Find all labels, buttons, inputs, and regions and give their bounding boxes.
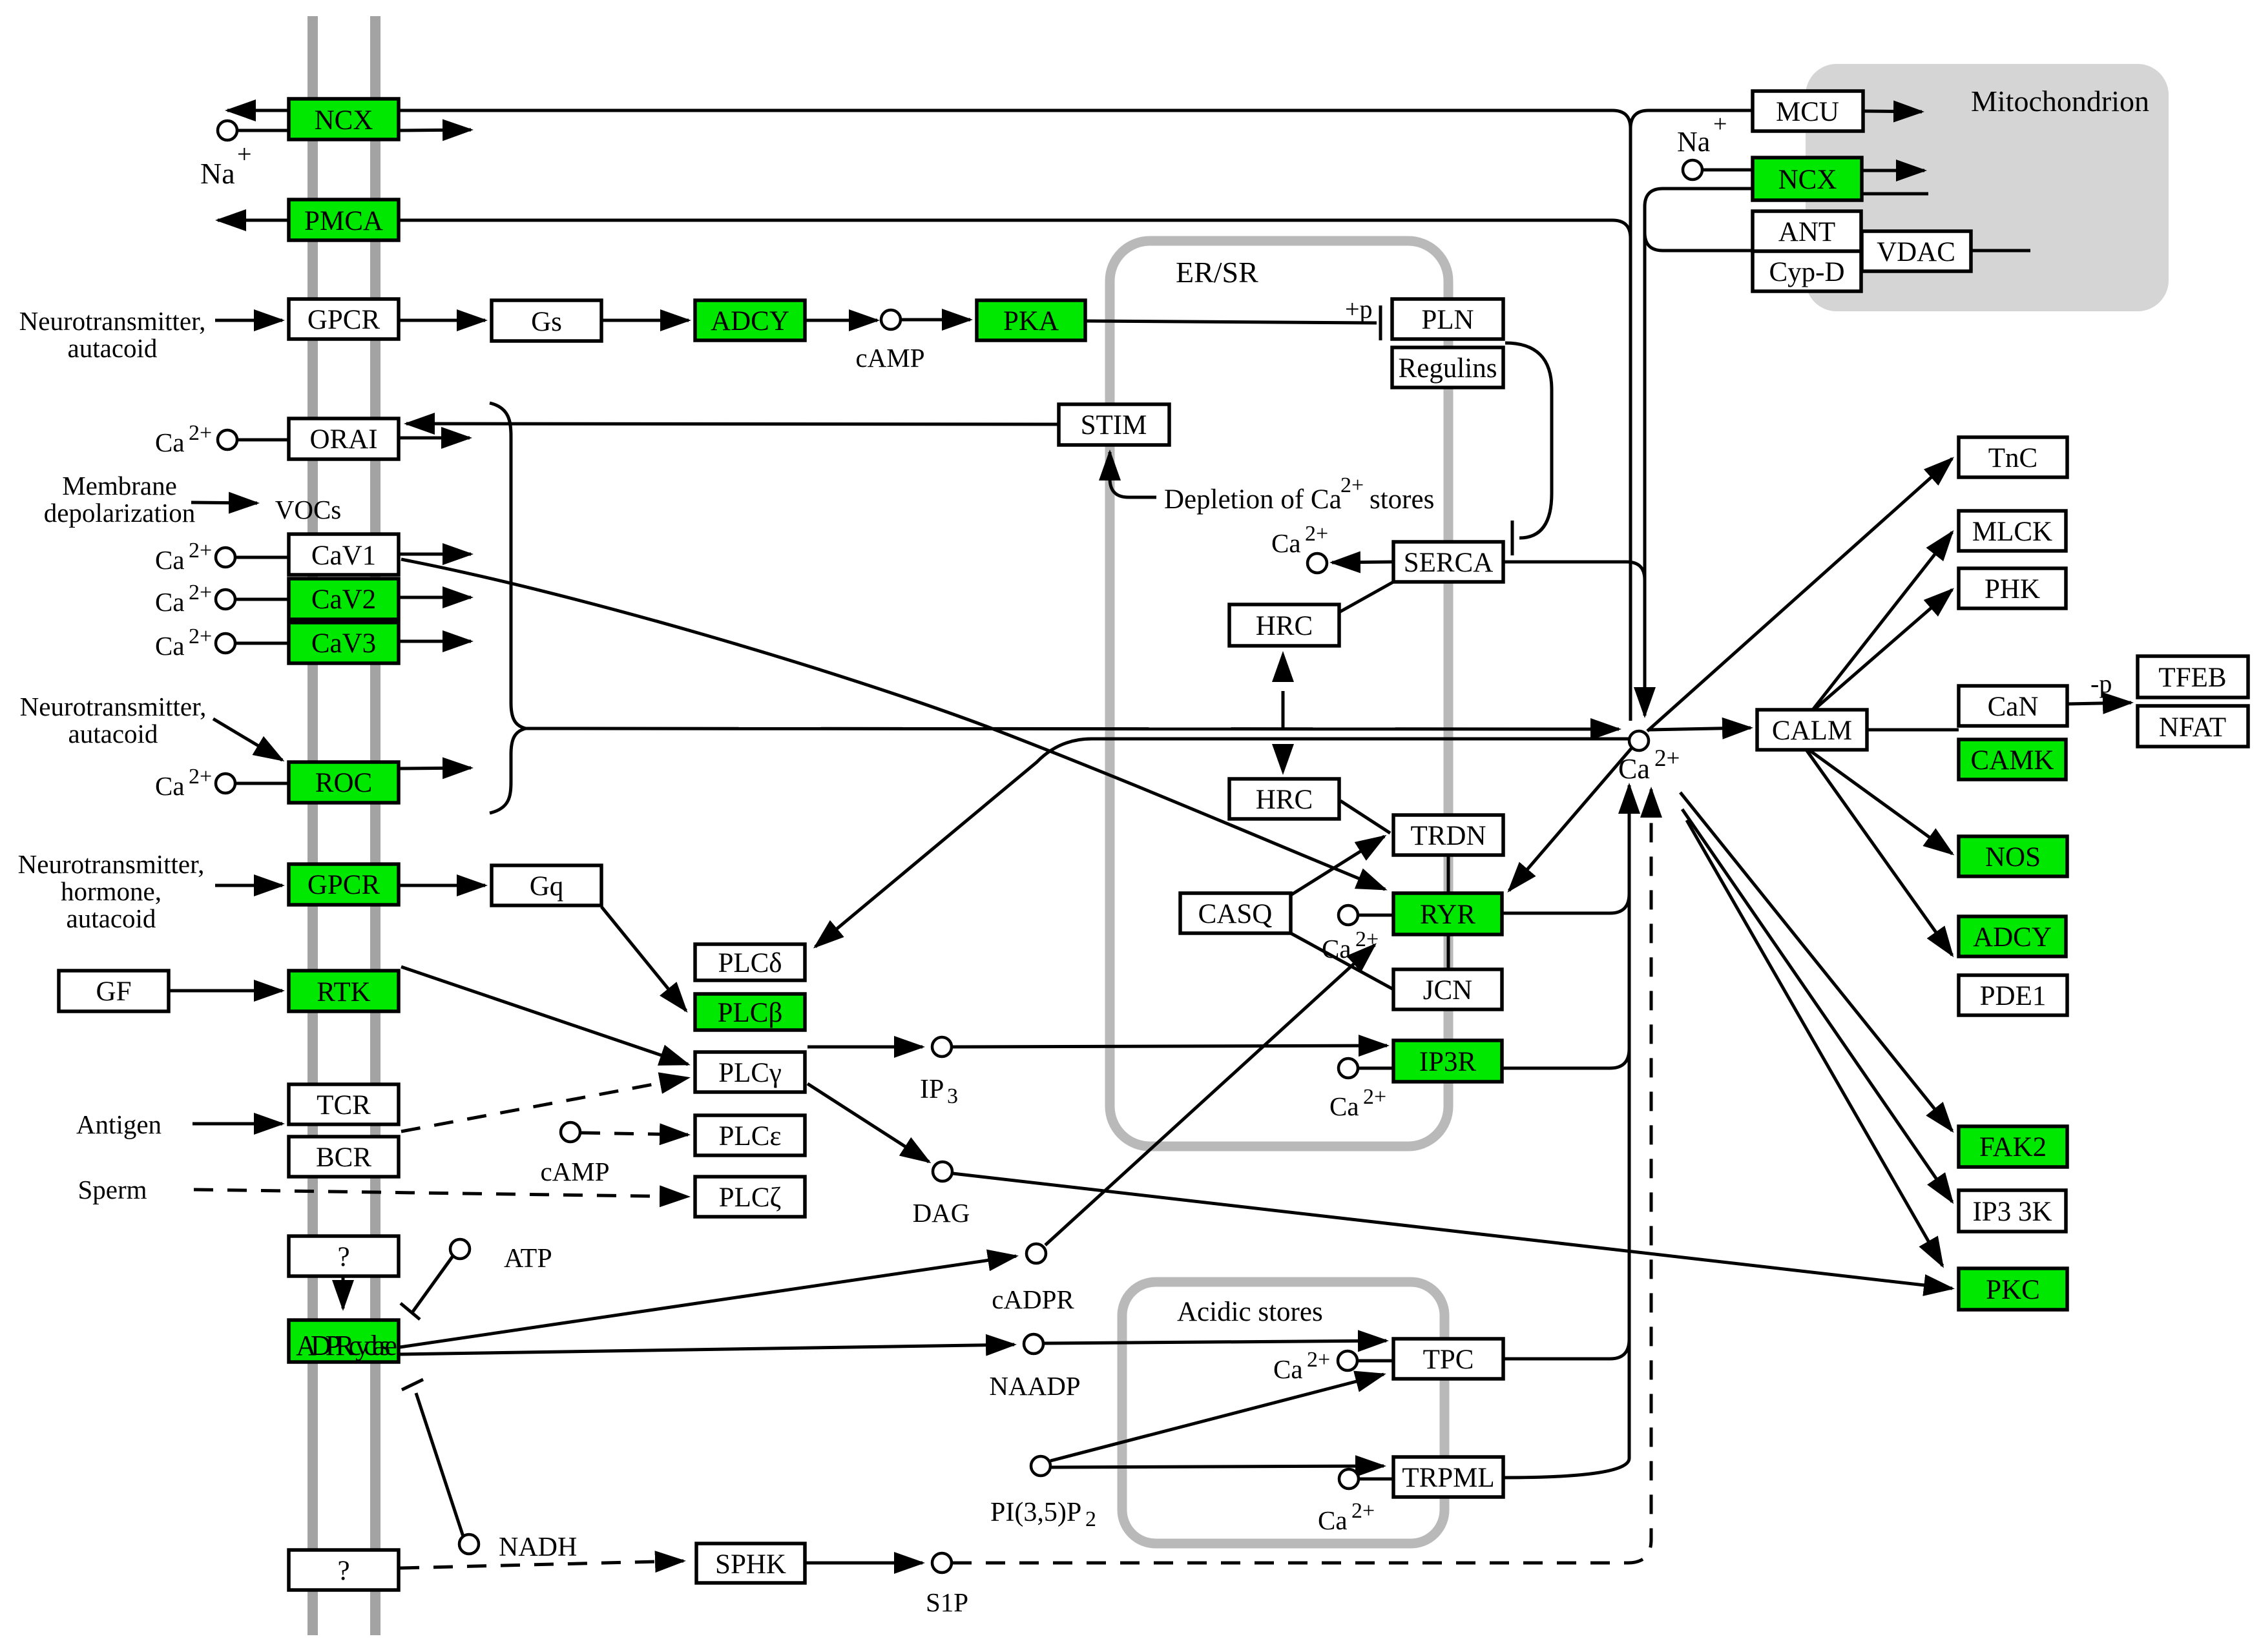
wire ADPR cyclase to cADPR [400, 1256, 1016, 1347]
wire IP3 to IP3R [952, 1046, 1387, 1047]
box RYR [1393, 893, 1502, 934]
svg-text:ORAI: ORAI [309, 424, 377, 455]
wire PLN/Regulins elbow down to SERCA T-bar [1505, 343, 1552, 538]
wire collector vertical up to node [1628, 785, 1631, 1458]
svg-text:JCN: JCN [1423, 975, 1472, 1006]
node Ca2+ circle ROC in [216, 774, 235, 793]
box TRPML [1393, 1457, 1503, 1497]
wire neurotransmitter diagonal arrow to ROC [213, 719, 282, 760]
node Ca2+ circle NCX in [218, 121, 237, 140]
wire branch to MCU [1631, 110, 1753, 129]
wire CASQ to JCN [1291, 933, 1393, 989]
svg-text:2+: 2+ [189, 625, 212, 648]
box CypD [1753, 251, 1861, 291]
svg-text:2+: 2+ [1363, 1085, 1386, 1109]
svg-text:Ca: Ca [155, 587, 185, 617]
node DAG circle [933, 1162, 952, 1181]
svg-text:autacoid: autacoid [68, 719, 158, 749]
T-bar NADH inhibition [402, 1379, 423, 1390]
box IP33K [1959, 1190, 2066, 1232]
wire antigen to TCR/BCR [193, 1122, 282, 1126]
svg-text:SPHK: SPHK [715, 1549, 786, 1580]
wire NAADP to TPC [1044, 1341, 1386, 1343]
wire V2 branch to ANT/Cyp-D [1645, 232, 1753, 251]
wire Ca2+ to RYR [1359, 914, 1393, 917]
wire PMCA export line with left arrow [218, 219, 289, 222]
wire NCX export line with left arrow [227, 109, 289, 112]
T-bar PKA-PLN inhibition [1379, 305, 1382, 340]
wire vertical V1 to node [1629, 129, 1632, 721]
box PLCepsilon [695, 1115, 805, 1155]
svg-text:VOCs: VOCs [275, 495, 342, 524]
wire HRC dashed double arrow lower [1282, 710, 1285, 772]
node Ca2+ circle IP3R gate [1339, 1058, 1358, 1078]
wire node ray to FAK2 [1680, 792, 1952, 1131]
wire CaV1 out arrow [399, 553, 471, 556]
wire Ca2+ to TRPML [1359, 1478, 1393, 1481]
wire NADH inhibition [416, 1393, 463, 1536]
wire node ray to IP3 3K [1682, 809, 1952, 1202]
wire GF to RTK [169, 989, 282, 993]
svg-text:Ca: Ca [155, 631, 185, 661]
svg-text:Ca: Ca [155, 428, 185, 457]
wire V2 vertical down to node with arrow [1643, 207, 1647, 716]
box PKA [977, 300, 1085, 340]
svg-text:RYR: RYR [1420, 900, 1475, 930]
node cAMP circle [881, 310, 901, 329]
svg-text:IP3R: IP3R [1419, 1047, 1477, 1077]
svg-text:PLCζ: PLCζ [719, 1182, 782, 1213]
svg-text:TPC: TPC [1423, 1345, 1474, 1375]
wire membrane depolarization arrow [191, 502, 257, 503]
wire NCX lower out arrow [399, 130, 471, 130]
svg-text:CaV3: CaV3 [311, 628, 376, 659]
box MLCK [1959, 511, 2066, 551]
box MCU [1753, 91, 1863, 131]
node Ca2+ circle CaV3 in [216, 634, 235, 653]
svg-text:cADPR: cADPR [992, 1285, 1074, 1314]
box HRC1 [1229, 604, 1339, 646]
box TFEB [2138, 656, 2248, 697]
svg-text:-p: -p [2090, 669, 2112, 698]
wire PLCgamma to DAG [807, 1084, 929, 1162]
svg-text:autacoid: autacoid [67, 903, 156, 933]
svg-text:STIM: STIM [1081, 410, 1147, 440]
wire RTK diagonal to PLCgamma [401, 967, 688, 1064]
T-bar ATP inhibition [401, 1303, 420, 1319]
wire SPHK to S1P [805, 1562, 922, 1565]
wire CaV1 diagonal to RYR [401, 559, 1385, 889]
svg-text:PLCβ: PLCβ [718, 998, 783, 1028]
wire HRC1 to SERCA [1339, 582, 1393, 612]
svg-text:ADPRcyclase: ADPRcyclase [296, 1330, 396, 1361]
box Regulins [1392, 347, 1503, 387]
svg-text:DAG: DAG [913, 1198, 970, 1228]
box PMCA [289, 200, 399, 240]
box GPCR1 [289, 299, 399, 339]
svg-text:2+: 2+ [1351, 1499, 1375, 1523]
svg-text:HRC: HRC [1256, 611, 1313, 641]
wire CALM to PHK [1814, 590, 1952, 710]
wire PLC to IP3 [807, 1046, 922, 1049]
wire STIM to ORAI with arrow [406, 424, 1059, 424]
wire depletion label elbow up to STIM [1110, 452, 1156, 497]
acidic stores membrane [1122, 1282, 1444, 1544]
svg-text:TFEB: TFEB [2158, 663, 2226, 693]
wire CALM to ADCY [1806, 750, 1952, 955]
wire MCU into mitochondrion [1863, 111, 1922, 112]
box ROC [289, 762, 399, 803]
wire ROC in [236, 782, 289, 785]
box STIM [1059, 404, 1169, 445]
svg-text:2+: 2+ [1307, 1348, 1330, 1372]
svg-text:Na: Na [1677, 126, 1710, 158]
node PI(3,5)P2 circle [1031, 1456, 1050, 1476]
svg-text:CaV1: CaV1 [311, 541, 376, 571]
box RTK [289, 971, 399, 1011]
svg-text:PI(3,5)P: PI(3,5)P [990, 1498, 1081, 1527]
svg-text:+: + [237, 139, 252, 169]
wire IP3R release to collector [1502, 1049, 1629, 1068]
box TRDN [1393, 815, 1503, 855]
node NAADP circle [1024, 1334, 1043, 1354]
node Ca2+ circle CaV2 in [216, 590, 235, 609]
wire RYR release to collector [1502, 894, 1629, 913]
wire CaV2 out arrow [399, 596, 471, 599]
svg-text:NAADP: NAADP [989, 1371, 1080, 1401]
wire SERCA to Ca2+ release [1332, 562, 1393, 563]
svg-text:GPCR: GPCR [307, 305, 380, 335]
wire Na+ to mito NCX [1703, 169, 1753, 172]
wire PMCA merge into V1 [399, 220, 1631, 238]
svg-text:ER/SR: ER/SR [1176, 256, 1258, 289]
svg-text:Depletion of Ca: Depletion of Ca [1164, 484, 1342, 515]
box NCX2 [1753, 158, 1862, 200]
plasma membrane bar 2 [370, 16, 380, 1635]
svg-text:Gq: Gq [530, 871, 564, 902]
wire TRPML release to collector [1503, 1458, 1629, 1478]
svg-text:SERCA: SERCA [1404, 548, 1494, 578]
box TCR [289, 1084, 399, 1124]
svg-text:cAMP: cAMP [855, 343, 924, 373]
wire CaV3 in [236, 642, 289, 645]
wire neurotransmitter to GPCR2 [215, 884, 282, 887]
node Ca2+ circle TPC gate [1338, 1351, 1357, 1370]
svg-text:TnC: TnC [1988, 443, 2037, 473]
svg-text:Ca: Ca [1329, 1091, 1359, 1121]
node cADPR circle [1026, 1244, 1046, 1263]
node central Ca2+ circle [1629, 731, 1649, 750]
box NCX1 [289, 99, 399, 139]
svg-text:hormone,: hormone, [61, 876, 161, 906]
svg-text:PLCγ: PLCγ [718, 1058, 782, 1088]
box FAK2 [1959, 1126, 2067, 1167]
box CaV1 [289, 534, 399, 575]
svg-text:CASQ: CASQ [1198, 899, 1273, 929]
box HRC2 [1229, 779, 1339, 819]
svg-text:Ca: Ca [155, 545, 185, 575]
svg-text:TCR: TCR [317, 1090, 371, 1120]
svg-text:FAK2: FAK2 [1979, 1132, 2047, 1162]
svg-text:Neurotransmitter,: Neurotransmitter, [20, 692, 207, 721]
node Ca2+ circle SERCA out [1308, 553, 1327, 573]
svg-text:2+: 2+ [1654, 745, 1680, 772]
svg-text:PHK: PHK [1985, 574, 2040, 604]
wire brace apex to Ca2+ node [526, 728, 1619, 729]
wire CaN to TFEB/NFAT (-p) [2067, 703, 2131, 704]
wire CALM to CaN/CAMK [1867, 728, 1959, 732]
svg-text:Ca: Ca [1318, 1505, 1348, 1535]
wire TPC release to collector [1503, 1339, 1629, 1359]
svg-text:PMCA: PMCA [304, 206, 383, 236]
box CALM [1757, 710, 1867, 750]
node Ca2+ circle TRPML gate [1339, 1469, 1359, 1489]
wire TRDN-RYR connector [1447, 855, 1450, 893]
node Ca2+ circle CaV1 in [216, 548, 235, 567]
wire ? dashed to SPHK [400, 1561, 683, 1568]
box ADCY2 [1959, 916, 2066, 956]
svg-text:Sperm: Sperm [78, 1175, 147, 1204]
box IP3R [1393, 1040, 1502, 1082]
svg-text:PKC: PKC [1986, 1275, 2040, 1305]
svg-text:stores: stores [1370, 484, 1434, 515]
wire Ca2+ to TPC [1358, 1359, 1393, 1363]
svg-text:HRC: HRC [1256, 785, 1313, 815]
svg-text:3: 3 [947, 1084, 958, 1108]
wire GPCR2 to Gq [399, 884, 485, 887]
svg-text:ATP: ATP [504, 1244, 552, 1274]
svg-text:Ca: Ca [1322, 934, 1351, 964]
svg-text:CAMK: CAMK [1970, 745, 2054, 776]
svg-text:TRDN: TRDN [1410, 821, 1486, 851]
box NOS [1959, 836, 2067, 876]
svg-text:PLCε: PLCε [719, 1121, 782, 1151]
wire mito NCX out arrow [1862, 169, 1924, 172]
svg-text:Ca: Ca [155, 771, 185, 801]
svg-text:+p: +p [1345, 294, 1373, 324]
node cAMP circle lower [561, 1122, 580, 1142]
svg-text:Mitochondrion: Mitochondrion [1971, 85, 2149, 118]
wire VDAC stub [1971, 249, 2030, 253]
svg-text:ADCY: ADCY [711, 306, 789, 336]
box Gs [492, 300, 601, 341]
svg-text:PLCδ: PLCδ [718, 948, 782, 978]
box GPCR2 [289, 864, 399, 905]
svg-text:CALM: CALM [1772, 716, 1852, 746]
svg-text:cAMP: cAMP [540, 1157, 609, 1186]
svg-text:+: + [1713, 110, 1727, 138]
wire cAMP to PKA [901, 318, 970, 322]
wire node to CALM [1649, 728, 1751, 730]
ER/SR membrane [1110, 241, 1448, 1146]
wire TCR/BCR dashed to PLCgamma [401, 1078, 688, 1131]
wire S1P dashed to node [952, 789, 1651, 1563]
wire ? down to ADPR cyclase [342, 1276, 345, 1308]
svg-text:MCU: MCU [1776, 97, 1839, 127]
svg-text:BCR: BCR [316, 1142, 371, 1173]
svg-text:S1P: S1P [926, 1587, 968, 1617]
box CaV3 [289, 623, 399, 663]
box CAMK [1959, 739, 2066, 780]
wire ADPR cyclase to NAADP [400, 1345, 1014, 1354]
box PLN [1392, 299, 1503, 339]
wire ATP inhibition [413, 1256, 453, 1312]
wire RYR-JCN connector [1447, 934, 1450, 969]
wire CaV2 in [236, 598, 289, 601]
box SPHK [696, 1544, 805, 1583]
box Q2 [289, 1550, 399, 1590]
node S1P circle [932, 1553, 952, 1573]
box NFAT [2138, 706, 2248, 747]
box PLCbeta [695, 994, 805, 1030]
wire HRC dashed double arrow upper [1282, 654, 1285, 710]
box PDE1 [1959, 975, 2067, 1015]
wire mito NCX left line into V2 [1645, 189, 1753, 207]
box ADPRcyclase [289, 1320, 399, 1362]
svg-text:NCX: NCX [315, 105, 373, 136]
svg-text:?: ? [337, 1556, 349, 1586]
svg-text:2+: 2+ [1355, 927, 1379, 951]
wire Ca2+ to IP3R [1359, 1067, 1393, 1070]
svg-text:Acidic stores: Acidic stores [1177, 1297, 1323, 1327]
svg-text:Cyp-D: Cyp-D [1769, 257, 1844, 287]
svg-text:PLN: PLN [1421, 305, 1474, 335]
T-bar Regulins-SERCA inhibition [1511, 521, 1514, 555]
svg-text:VDAC: VDAC [1877, 237, 1955, 267]
svg-text:Neurotransmitter,: Neurotransmitter, [18, 849, 205, 879]
node ATP circle [450, 1239, 470, 1259]
box PKC [1959, 1268, 2067, 1310]
svg-text:NFAT: NFAT [2159, 712, 2226, 743]
wire sperm dashed to PLCzeta [194, 1190, 688, 1197]
svg-text:Antigen: Antigen [76, 1110, 161, 1139]
wire neurotransmitter to GPCR [215, 319, 282, 322]
svg-text:NADH: NADH [499, 1533, 577, 1562]
node IP3 circle [932, 1037, 952, 1057]
node Na+ circle mito [1683, 160, 1702, 180]
wire CaV1 in [236, 556, 289, 559]
box TPC [1393, 1339, 1503, 1379]
svg-text:RTK: RTK [317, 977, 370, 1007]
svg-text:ADCY: ADCY [1973, 922, 2052, 953]
wire SERCA feed from V2 [1503, 562, 1645, 580]
svg-text:CaN: CaN [1988, 692, 2039, 722]
svg-text:Ca: Ca [1618, 753, 1650, 785]
svg-text:Ca: Ca [1271, 528, 1301, 558]
svg-text:2+: 2+ [189, 581, 212, 604]
box TnC [1959, 437, 2067, 477]
box CaN [1959, 686, 2067, 726]
wire node ray to PKC [1687, 820, 1943, 1266]
wire HRC2 to TRDN [1340, 801, 1390, 833]
svg-text:GPCR: GPCR [307, 870, 380, 900]
svg-text:2+: 2+ [189, 539, 212, 563]
box GF [59, 971, 169, 1011]
svg-text:Ca: Ca [1273, 1354, 1303, 1384]
node NADH circle [459, 1534, 479, 1554]
svg-text:Regulins: Regulins [1399, 353, 1497, 384]
box ANT [1753, 211, 1861, 251]
svg-text:CaV2: CaV2 [311, 584, 376, 615]
box Q1 [289, 1236, 399, 1276]
svg-text:2+: 2+ [189, 765, 212, 789]
svg-text:Membrane: Membrane [62, 471, 177, 501]
box JCN [1393, 969, 1502, 1009]
mitochondrion compartment [1806, 64, 2169, 311]
box CASQ [1180, 893, 1291, 933]
wire node to PLCdelta [815, 739, 1629, 947]
wire DAG to PKC [953, 1173, 1952, 1288]
wire NCX to MCU manifold top [399, 110, 1631, 129]
svg-text:?: ? [337, 1242, 349, 1272]
wire ORAI out arrow [399, 437, 470, 440]
svg-text:depolarization: depolarization [44, 498, 196, 528]
wire CASQ to TRDN [1291, 836, 1384, 895]
wire PKA inhibits PLN (+p) [1087, 321, 1377, 323]
brace collecting channel outputs [490, 403, 526, 813]
svg-text:IP: IP [920, 1075, 944, 1104]
wire CaV3 out arrow [399, 640, 471, 643]
svg-text:2+: 2+ [1305, 522, 1328, 546]
svg-text:GF: GF [96, 976, 132, 1007]
box PLCdelta [695, 944, 805, 980]
svg-text:autacoid: autacoid [68, 333, 158, 363]
wire PI(3,5)P2 to TRPML [1051, 1466, 1384, 1467]
wire ORAI in [238, 439, 289, 442]
box PLCgamma [695, 1052, 805, 1092]
svg-text:Gs: Gs [531, 307, 562, 337]
svg-text:ROC: ROC [315, 768, 372, 798]
wire cAMP dashed to PLCepsilon [581, 1133, 688, 1135]
box ORAI [289, 418, 399, 459]
wire ADCY to cAMP [805, 319, 877, 322]
wire Gq diagonal to PLCbeta [601, 907, 686, 1011]
svg-text:2+: 2+ [1340, 473, 1364, 497]
box VDAC [1862, 231, 1971, 271]
svg-text:2+: 2+ [189, 421, 212, 445]
wire ROC out arrow [399, 768, 471, 769]
wire node to TnC [1647, 459, 1952, 731]
box SERCA [1393, 542, 1503, 582]
box PHK [1959, 568, 2066, 608]
wire CALM to NOS [1809, 750, 1952, 854]
svg-text:PDE1: PDE1 [1980, 981, 2047, 1011]
svg-text:Neurotransmitter,: Neurotransmitter, [19, 306, 206, 336]
wire PI(3,5)P2 to TPC [1050, 1374, 1384, 1461]
wire cADPR to RYR [1045, 945, 1375, 1245]
wire GPCR to Gs [399, 319, 485, 322]
wire Gs to ADCY [601, 319, 689, 322]
plasma membrane bar 1 [307, 16, 318, 1635]
box CaV2 [289, 579, 399, 619]
svg-text:ANT: ANT [1778, 217, 1835, 247]
svg-text:PKA: PKA [1003, 306, 1059, 336]
node Ca2+ circle RYR gate [1339, 905, 1358, 925]
wire mito NCX lower out [1862, 192, 1928, 196]
node Ca2+ circle ORAI in [218, 430, 237, 449]
box Gq [492, 865, 601, 905]
svg-text:TRPML: TRPML [1402, 1463, 1494, 1493]
svg-text:IP3 3K: IP3 3K [1972, 1197, 2052, 1227]
box BCR [289, 1137, 399, 1177]
svg-text:MLCK: MLCK [1972, 517, 2052, 547]
wire NCX in [238, 129, 289, 132]
box ADCY1 [695, 300, 805, 340]
box PLCzeta [695, 1177, 805, 1217]
svg-text:NCX: NCX [1778, 165, 1837, 195]
svg-text:Na: Na [200, 157, 235, 190]
svg-text:NOS: NOS [1985, 842, 2041, 872]
